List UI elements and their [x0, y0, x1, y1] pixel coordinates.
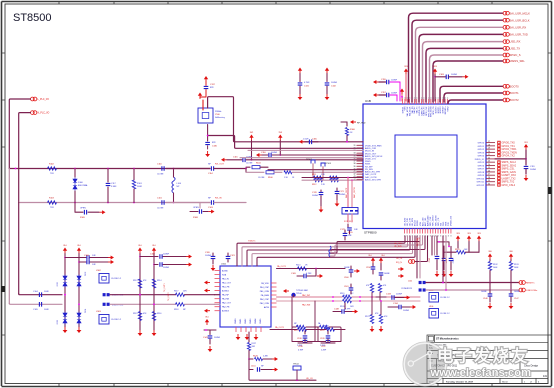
svg-text:29: 29	[488, 180, 490, 182]
svg-text:UD_RXD: UD_RXD	[394, 246, 402, 248]
power arrow RF_PAD	[353, 121, 356, 123]
svg-text:100NF: 100NF	[514, 291, 521, 293]
svg-text:TX0UT1: TX0UT1	[248, 241, 256, 243]
ground arrow	[525, 175, 527, 179]
IC U101 line driver	[220, 266, 271, 327]
svg-text:100NF: 100NF	[391, 93, 398, 95]
svg-text:TP104: TP104	[293, 364, 299, 366]
svg-text:STP8500: STP8500	[364, 231, 377, 235]
power arrow	[209, 211, 212, 213]
svg-text:R121: R121	[294, 330, 299, 332]
svg-text:100NF: 100NF	[481, 291, 488, 293]
svg-text:100NF: 100NF	[339, 194, 346, 196]
off-page connector BOOT0	[503, 84, 507, 88]
resistor R111b 2.2K	[330, 176, 339, 179]
svg-text:烧: 烧	[493, 347, 510, 366]
capacitor C158 100NF	[380, 264, 382, 271]
power flag VL0 b	[78, 250, 80, 254]
wire SAI_USR_TXD	[419, 34, 503, 102]
svg-text:GPIO11: GPIO11	[477, 182, 485, 184]
wire	[333, 296, 342, 298]
svg-text:子: 子	[456, 348, 473, 366]
svg-text:GPIO_CSL2: GPIO_CSL2	[502, 184, 516, 187]
ground arrow	[64, 327, 66, 331]
wire to UD_C8	[249, 370, 316, 381]
svg-text:TP102: TP102	[306, 159, 313, 161]
svg-text:PA2_INN: PA2_INN	[302, 304, 311, 307]
power flag 3V0 pullup b	[510, 256, 512, 260]
U1B left pins	[357, 145, 364, 179]
svg-text:23: 23	[488, 161, 490, 163]
wire RESETn	[426, 282, 519, 284]
svg-text:GND0: GND0	[235, 319, 237, 324]
power flag VL0 mid b	[380, 260, 382, 264]
wire TX0UT5	[257, 236, 415, 266]
power flag 3V3 RX bias2	[279, 137, 281, 141]
ground arrow	[371, 326, 373, 330]
svg-text:PA1_ONP: PA1_ONP	[260, 286, 270, 289]
svg-text:SPI2C_S: SPI2C_S	[510, 53, 521, 57]
svg-text:TX_OUT2: TX_OUT2	[168, 292, 170, 301]
wire DVDD_IO	[495, 158, 526, 160]
resistor R116 47K	[152, 312, 155, 321]
svg-text:AVSS: AVSS	[264, 306, 270, 309]
inductor L100 NP	[172, 177, 175, 193]
svg-text:C143: C143	[429, 258, 431, 262]
resistor R110 1R	[298, 267, 307, 270]
wire BOOT2	[448, 100, 503, 104]
svg-text:USD_TX: USD_TX	[510, 47, 521, 51]
resistor R102 75R	[48, 167, 57, 170]
svg-text:AGND3: AGND3	[222, 310, 230, 313]
svg-text:25: 25	[488, 167, 490, 169]
svg-text:3.3NF: 3.3NF	[111, 186, 117, 188]
wire	[293, 295, 295, 297]
ground arrows U101 bottom	[0, 0, 1, 1]
capacitor C159 100NF	[376, 81, 379, 83]
ground arrow below crystal cap	[207, 151, 209, 155]
wire DAC_OUTP	[302, 177, 363, 179]
U1B top pin numbers	[402, 97, 448, 99]
svg-text:GPIO6: GPIO6	[478, 165, 485, 167]
ground arrow	[139, 330, 141, 334]
svg-text:U101: U101	[221, 264, 227, 266]
svg-text:R115: R115	[133, 313, 137, 315]
power arrow	[352, 311, 355, 313]
wire	[405, 75, 407, 102]
svg-text:GND5: GND5	[260, 319, 262, 324]
capacitor C170 100NF	[320, 190, 322, 192]
capacitor C134 100NF	[399, 305, 401, 310]
off-page connector MAINS_SRL	[503, 59, 507, 63]
resistor R130 47K	[378, 284, 381, 293]
off-page connector SAI_USR_TXD	[503, 33, 507, 37]
U1B top pins	[403, 99, 448, 104]
svg-text:GPIO12: GPIO12	[476, 185, 484, 187]
off-page connector USD_RX	[503, 40, 507, 44]
svg-text:PA_INP: PA_INP	[222, 294, 230, 297]
wire	[207, 125, 209, 142]
power flag 3V3 second	[434, 71, 436, 75]
svg-text:PA2_OUT: PA2_OUT	[222, 302, 232, 305]
resistor R120 10R	[343, 299, 352, 302]
svg-text:DVDD_IO2: DVDD_IO2	[451, 215, 453, 226]
svg-text:R122: R122	[320, 330, 325, 332]
svg-text:AVDD_ADC: AVDD_ADC	[427, 215, 430, 226]
wire TX0UT3	[247, 236, 410, 266]
svg-text:POWER1123: POWER1123	[401, 288, 412, 290]
ground arrow	[326, 94, 328, 98]
capacitor C115 100NF inline	[224, 159, 227, 161]
transformer U102 CLOSE 1:2	[99, 274, 109, 284]
wire	[371, 297, 373, 315]
capacitor OPEN R108	[199, 203, 201, 209]
wire PA bus in lower	[185, 303, 215, 305]
junction	[347, 177, 349, 179]
wire	[434, 236, 436, 255]
capacitor C171 100NF	[336, 188, 338, 191]
power flag above C131	[299, 70, 301, 74]
power arrow	[186, 256, 189, 258]
wire L_PLC vertical	[9, 99, 30, 169]
svg-text:D103: D103	[57, 320, 59, 324]
wire	[431, 236, 433, 255]
resistor R126	[326, 328, 335, 331]
wire TX0UT4	[252, 236, 413, 266]
wire	[399, 82, 401, 101]
wire vertical to TX bus dark	[18, 203, 20, 294]
svg-text:SAI_USR_RX: SAI_USR_RX	[510, 25, 527, 29]
resistor R121 NP	[297, 325, 306, 328]
resistor R132 100K	[489, 260, 491, 262]
svg-text:30: 30	[488, 183, 490, 185]
svg-text:NoMounting: NoMounting	[215, 116, 225, 119]
svg-text:U1B: U1B	[365, 99, 371, 103]
off-page connector L_PLC_IO	[31, 97, 35, 101]
svg-text:DAC_OUTN: DAC_OUTN	[365, 176, 377, 179]
capacitor C161 4.7PF	[350, 284, 352, 287]
wire TX0UT2	[242, 236, 408, 266]
svg-text:CLOSE: CLOSE	[246, 163, 253, 165]
svg-text:75R: 75R	[50, 173, 54, 175]
svg-text:R116: R116	[157, 313, 161, 315]
svg-text:GPIO4: GPIO4	[478, 156, 485, 158]
TVS diode D100	[74, 169, 76, 178]
power arrow	[398, 268, 401, 270]
svg-text:SAI_USR_MCLK: SAI_USR_MCLK	[510, 11, 531, 15]
power flag VL0 mid a	[372, 260, 374, 264]
wire bus RX lower	[19, 202, 210, 204]
resistor R131 10K	[445, 251, 456, 253]
power arrow	[108, 261, 111, 263]
svg-text:75R: 75R	[50, 207, 54, 209]
svg-text:PA1_ONN: PA1_ONN	[260, 290, 270, 293]
U101 right pins	[271, 283, 277, 307]
svg-text:22: 22	[488, 157, 490, 159]
svg-text:10UF: 10UF	[44, 291, 50, 293]
wire PA_INP	[277, 296, 334, 298]
svg-text:DAC_OUTP: DAC_OUTP	[365, 173, 377, 176]
resistor R129 47K	[370, 284, 373, 293]
svg-text:PA2_ONP: PA2_ONP	[260, 298, 270, 301]
svg-text:3V0: 3V0	[488, 251, 491, 253]
resistor R124 47K	[379, 315, 382, 324]
power arrow right of OPEN cap	[100, 211, 103, 213]
svg-text:AVDD_3V3_VPR: AVDD_3V3_VPR	[365, 178, 381, 181]
svg-text:4.7NF: 4.7NF	[298, 350, 304, 352]
capacitor C120 100NF	[212, 253, 214, 256]
svg-text:R112: R112	[312, 184, 316, 186]
svg-text:2.49K: 2.49K	[263, 356, 269, 358]
ground arrow	[299, 94, 301, 98]
svg-text:100NF: 100NF	[391, 80, 398, 82]
ground arrow	[489, 303, 491, 307]
capacitor C148 4.7PF	[344, 303, 346, 309]
svg-text:BOOT1: BOOT1	[510, 91, 520, 95]
svg-text:CLOSE 1:2: CLOSE 1:2	[111, 278, 122, 280]
capacitor C138 2.2NF	[303, 340, 308, 342]
svg-text:GPIO3: GPIO3	[478, 152, 485, 154]
svg-text:3V0: 3V0	[509, 251, 512, 253]
wire	[291, 297, 293, 327]
svg-text:SAI_USR_BCLK: SAI_USR_BCLK	[510, 18, 530, 22]
title block	[427, 335, 548, 384]
wire bus TX lower	[9, 303, 62, 304]
wire vertical to TX bus light	[8, 169, 10, 304]
svg-text:R132: R132	[493, 264, 498, 266]
transformer U105 CLOSE 1:2	[429, 293, 439, 303]
svg-text:4.7NF: 4.7NF	[306, 273, 312, 275]
svg-text:GND1: GND1	[240, 319, 242, 324]
wire USD_TX	[426, 48, 503, 102]
ground arrow	[436, 271, 438, 275]
svg-text:AVDD_RX_VPR: AVDD_RX_VPR	[365, 171, 381, 174]
resistor R113 47K	[138, 279, 141, 288]
resistor R114 47K	[152, 279, 155, 288]
test point TP104	[293, 366, 301, 370]
svg-text:21: 21	[488, 154, 490, 156]
svg-text:DAC_UD0: DAC_UD0	[416, 238, 419, 246]
wire bus TX upper	[19, 294, 62, 295]
svg-text:IRQ_N: IRQ_N	[396, 262, 402, 264]
TVS diode D101	[63, 275, 67, 288]
off-page connector SAI_USR_MCLK	[503, 11, 507, 15]
svg-text:3V1_FLT: 3V1_FLT	[344, 221, 353, 223]
svg-text:28: 28	[488, 177, 490, 179]
wire	[64, 254, 66, 328]
power flag VL0 a	[64, 250, 66, 254]
resistor R127 20R	[247, 343, 250, 351]
svg-text:AVDD_3V3_MCLK: AVDD_3V3_MCLK	[365, 155, 383, 158]
power arrow	[354, 270, 357, 272]
svg-text:100NF: 100NF	[163, 267, 170, 269]
capacitor C155 10UF	[344, 230, 346, 233]
svg-text:100NF: 100NF	[384, 273, 391, 275]
capacitor OPEN below bus	[74, 203, 76, 213]
capacitor C109 4.7NF	[315, 269, 317, 272]
wire USD_RX	[423, 42, 504, 102]
capacitor C103 NP	[211, 200, 213, 205]
wire SAI_USR_MCLK	[409, 13, 504, 102]
wire	[202, 100, 204, 110]
off-page connector N_PLC_IO	[31, 111, 35, 115]
svg-text:CLOSE 1:2: CLOSE 1:2	[111, 319, 122, 321]
capacitor C137b 4.7NF	[327, 331, 329, 334]
svg-text:R106: R106	[268, 177, 273, 179]
svg-text:R117: R117	[174, 291, 178, 293]
capacitor C151 NP	[248, 359, 250, 370]
test point TP102	[311, 160, 315, 164]
capacitor C119 100NF	[524, 166, 529, 168]
transformer U106 CLOSE 1:2	[429, 309, 439, 319]
jumper J102 POWER1123	[419, 281, 422, 284]
wire UD_CTS fan	[331, 236, 425, 251]
svg-text:PA_BIAS: PA_BIAS	[261, 294, 270, 297]
svg-text:3V3: 3V3	[467, 233, 470, 235]
svg-text:4.7UF: 4.7UF	[304, 82, 310, 84]
svg-text:GND3: GND3	[250, 319, 252, 324]
svg-text:LINKCOMn: LINKCOMn	[526, 290, 538, 292]
svg-text:DAC_OUTN: DAC_OUTN	[353, 187, 356, 198]
wire DAC vertical N	[351, 180, 353, 207]
wire MCLK_IN from crystal	[208, 97, 363, 142]
U1B right GPIO net labels group2	[498, 161, 517, 187]
wire vertical below U101	[248, 332, 250, 342]
svg-text:CLOSE: CLOSE	[157, 174, 164, 176]
capacitor C145 100NF	[450, 246, 452, 257]
filter L101	[342, 208, 358, 215]
wire MCLK_OUT from crystal	[208, 136, 363, 149]
svg-text:100K: 100K	[493, 267, 498, 269]
svg-text:R110: R110	[296, 265, 300, 267]
svg-text:R127: R127	[252, 343, 257, 345]
off-page connector IRQ_N	[415, 236, 428, 262]
svg-text:24: 24	[488, 164, 490, 166]
svg-text:AGND: AGND	[222, 269, 228, 272]
svg-text:C151: C151	[251, 366, 256, 368]
svg-text:D101: D101	[57, 282, 59, 286]
svg-text:RX_OUT: RX_OUT	[215, 164, 225, 166]
svg-text:17: 17	[488, 141, 490, 143]
capacitor C146 100NF	[489, 283, 491, 294]
watermark elecfans	[403, 342, 531, 386]
U1B right GPIO net labels group1	[498, 141, 518, 158]
wire	[525, 150, 527, 165]
wire DAC vertical P	[347, 178, 349, 208]
resistor R107 1K	[284, 171, 292, 174]
wire	[333, 300, 342, 302]
wire	[445, 236, 447, 290]
power arrows U101 left	[207, 282, 210, 284]
svg-text:CLOSE 1:2: CLOSE 1:2	[440, 297, 450, 299]
power arrow	[108, 257, 111, 259]
ground arrow	[209, 346, 211, 350]
svg-text:USD_RX: USD_RX	[510, 40, 521, 44]
svg-text:BOOT2: BOOT2	[510, 98, 520, 102]
svg-text:RESETn: RESETn	[526, 283, 535, 285]
svg-text:友: 友	[511, 346, 528, 366]
capacitor C131 4.7UF	[299, 74, 301, 82]
svg-text:CLOSE: CLOSE	[258, 177, 265, 179]
resistor R104 CLOSE	[245, 168, 247, 170]
wire	[214, 168, 246, 170]
svg-text:L_PLC_I/O: L_PLC_I/O	[38, 99, 50, 101]
svg-text:100NF: 100NF	[271, 152, 278, 154]
power arrow above crystal	[199, 95, 201, 99]
capacitor C163 100NF	[435, 76, 446, 78]
wire PA_INN	[277, 300, 334, 302]
svg-text:100NF: 100NF	[163, 254, 170, 256]
svg-text:UD_C8: UD_C8	[306, 378, 313, 380]
wire	[442, 236, 444, 283]
svg-text:1.5UF: 1.5UF	[303, 139, 309, 141]
off-page connector SPI2C_S	[503, 53, 507, 57]
svg-text:PA1_FB: PA1_FB	[222, 285, 230, 288]
svg-text:GPIO9: GPIO9	[478, 175, 485, 177]
svg-text:D102: D102	[85, 272, 87, 276]
capacitor C157 100NF	[376, 94, 379, 96]
svg-text:www.elecfans.com: www.elecfans.com	[430, 367, 532, 379]
off-page connector SAI_USR_BCLK	[503, 18, 507, 22]
svg-text:R104: R104	[256, 163, 261, 165]
svg-text:AVDD_CVR: AVDD_CVR	[365, 147, 377, 150]
resistor R111 2.2K	[314, 176, 323, 179]
svg-text:BOOT0: BOOT0	[510, 84, 520, 88]
wire UD_RXD fan	[330, 236, 420, 253]
svg-text:C161: C161	[344, 286, 349, 288]
resistor R105 CLOSE	[245, 169, 247, 173]
wire	[78, 254, 80, 328]
svg-text:SAI_USR_TXD: SAI_USR_TXD	[510, 33, 528, 37]
off-page connector BOOT2	[503, 98, 507, 102]
capacitor C139 2.2NF	[326, 340, 331, 342]
svg-text:OPEN: OPEN	[80, 208, 86, 210]
svg-text:PA_INN: PA_INN	[222, 298, 230, 301]
capacitor C117 3.3NF	[107, 169, 109, 183]
jumper J103 POWER1123	[419, 288, 422, 291]
svg-text:C138: C138	[297, 338, 302, 340]
svg-text:ST8500: ST8500	[13, 12, 52, 24]
resistor R112 2.2K	[314, 179, 323, 182]
svg-text:VSS2: VSS2	[447, 106, 449, 112]
series capacitor C104 10UF	[39, 292, 41, 297]
capacitor C141 100NF	[209, 330, 211, 335]
power flag 3V3 br3	[478, 238, 480, 242]
transformer U103 CLOSE 1:2	[99, 315, 109, 325]
svg-text:18: 18	[488, 144, 490, 146]
svg-text:C139: C139	[320, 338, 325, 340]
wire UD_TXD fan	[330, 236, 423, 256]
capacitor C156 100NF	[372, 264, 374, 267]
power flag VL0 c	[139, 250, 141, 254]
svg-text:C145: C145	[453, 259, 455, 263]
svg-text:TP103: TP103	[325, 163, 332, 165]
wire	[214, 202, 246, 204]
power flag VL0 U101	[206, 321, 208, 325]
wire	[468, 242, 470, 253]
svg-text:100R: 100R	[137, 186, 142, 188]
capacitor C144 100NF	[443, 246, 445, 258]
svg-text:R118: R118	[174, 309, 178, 311]
U1B bottom pins	[405, 229, 451, 234]
svg-text:100NF: 100NF	[403, 310, 410, 312]
capacitor C147 100NF	[510, 290, 512, 293]
resistor R117 10R	[176, 293, 185, 296]
capacitor C101 CLOSE	[162, 200, 164, 205]
wire	[457, 242, 459, 249]
svg-text:R113: R113	[133, 280, 137, 282]
svg-text:AGND2: AGND2	[222, 289, 230, 292]
